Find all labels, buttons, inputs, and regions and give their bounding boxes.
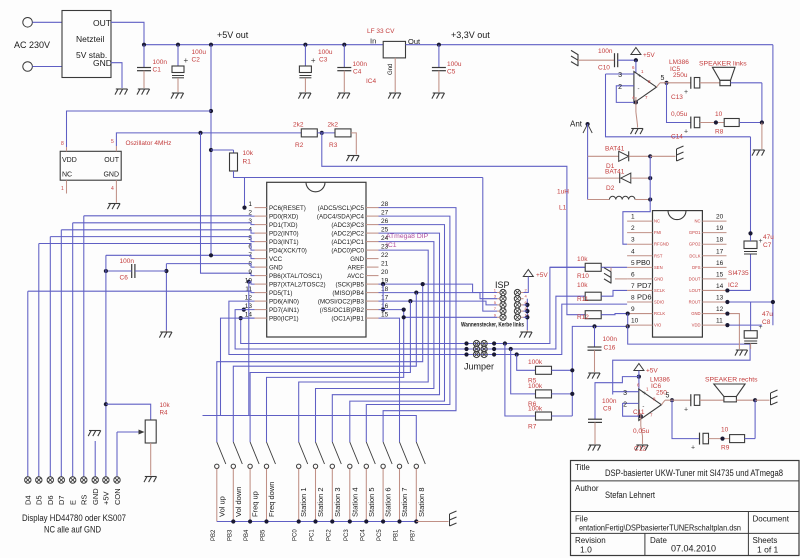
svg-text:R1: R1 xyxy=(243,159,252,166)
pin 7 SI4735 SCLK xyxy=(627,289,652,291)
wire C9 to supply xyxy=(595,377,639,420)
wire Freq up to common xyxy=(249,469,251,522)
wire pin15 PB1 to Station 7 xyxy=(379,318,400,442)
wire Vol down to common xyxy=(232,469,234,522)
svg-text:GND: GND xyxy=(350,256,364,263)
pin 13 ATmega8 PD7(AIN1) xyxy=(255,309,267,311)
svg-text:8: 8 xyxy=(631,295,635,302)
pin 4 oscillator GND lead xyxy=(115,180,117,203)
svg-text:21: 21 xyxy=(381,261,389,268)
power +5V symbol IC6 xyxy=(634,364,644,371)
diode D1 BAT41 xyxy=(588,155,619,157)
wire pin17 riser to Freq up xyxy=(250,301,410,442)
pin 3 SI4735 RFGND xyxy=(627,243,652,245)
node R6 common xyxy=(570,392,574,396)
svg-text:100u: 100u xyxy=(447,61,462,68)
pin 11 ATmega8 PD5(T1) xyxy=(255,292,267,294)
pin 12 SI4735 GND xyxy=(702,313,726,315)
svg-text:PD7(AIN1): PD7(AIN1) xyxy=(269,307,299,314)
svg-text:C10: C10 xyxy=(598,65,610,72)
svg-text:C16: C16 xyxy=(604,345,616,352)
svg-text:100n: 100n xyxy=(598,48,613,55)
svg-text:Wannenstecker, Kerbe links: Wannenstecker, Kerbe links xyxy=(461,322,524,329)
svg-text:RFGND: RFGND xyxy=(654,242,669,247)
svg-text:RCLK: RCLK xyxy=(654,311,665,316)
svg-text:3: 3 xyxy=(618,72,622,79)
connector ISP pin pair row 5 xyxy=(500,314,506,320)
pin 8 oscillator VDD lead xyxy=(66,147,68,151)
wire IC6 pin2 feedback xyxy=(623,403,641,416)
wire PB7 down to station 8 line xyxy=(248,282,250,416)
svg-text:VCC: VCC xyxy=(269,256,283,263)
wire C12 to R9 xyxy=(709,438,730,440)
svg-text:entationFertig\DSPbasierterTUN: entationFertig\DSPbasierterTUNERschaltpl… xyxy=(579,523,741,533)
svg-text:PB3: PB3 xyxy=(227,529,233,541)
node jumper right taps xyxy=(492,341,496,345)
svg-text:R10: R10 xyxy=(577,273,589,280)
wire R10 to SI pin5 xyxy=(601,266,627,268)
resistor R5 100k xyxy=(536,366,552,374)
wire Freq down to common xyxy=(266,469,268,522)
wire oscillator OUT to clock net xyxy=(116,133,301,146)
svg-text:C3: C3 xyxy=(319,57,328,64)
svg-text:22: 22 xyxy=(381,252,389,259)
capacitor C2 100u electrolytic xyxy=(177,45,179,66)
svg-text:PD2(INT0): PD2(INT0) xyxy=(269,231,299,238)
svg-text:100u: 100u xyxy=(318,49,333,56)
wire Station 7 to common xyxy=(399,469,401,522)
svg-text:(ADC3)PC3: (ADC3)PC3 xyxy=(331,222,364,229)
svg-text:PC2: PC2 xyxy=(326,529,332,541)
node pin19 xyxy=(381,282,385,286)
svg-text:NC alle auf GND: NC alle auf GND xyxy=(44,525,101,535)
wire Station 2 to common xyxy=(315,469,317,522)
node Vol up riser tap xyxy=(421,282,425,286)
svg-text:OUT: OUT xyxy=(104,157,120,164)
wire riser to Freq down xyxy=(267,310,404,442)
capacitor C14 0,05u xyxy=(690,117,692,129)
connector ISP pin pair row 4 xyxy=(500,308,506,314)
svg-text:GND: GND xyxy=(93,58,112,68)
capacitor C10 100n xyxy=(578,59,615,61)
svg-text:9: 9 xyxy=(248,269,252,276)
svg-text:19: 19 xyxy=(716,225,724,232)
svg-text:R11: R11 xyxy=(577,296,589,303)
svg-text:+: + xyxy=(691,445,695,452)
svg-text:PB7(XTAL2/TOSC2): PB7(XTAL2/TOSC2) xyxy=(269,282,326,289)
node pin13 xyxy=(725,300,729,304)
svg-text:(MISO)PB4: (MISO)PB4 xyxy=(332,290,364,297)
svg-text:C4: C4 xyxy=(353,69,362,76)
svg-text:PC5: PC5 xyxy=(377,529,383,541)
svg-text:OUT: OUT xyxy=(93,18,111,28)
svg-text:47u: 47u xyxy=(763,234,774,241)
potentiometer R4 10k xyxy=(145,420,156,443)
power supply block Netzteil 5V stab. xyxy=(62,11,111,78)
svg-text:PB5: PB5 xyxy=(261,529,267,541)
switch Station 7 xyxy=(400,442,409,464)
node pin4 ground xyxy=(634,100,638,104)
pin 5 ATmega8 PD3(INT1) xyxy=(255,241,267,243)
svg-text:PD6: PD6 xyxy=(637,293,652,302)
power +5V symbol at ISP xyxy=(523,270,533,277)
wire PB3 pin17 MOSI to ISP xyxy=(379,301,498,305)
svg-text:25: 25 xyxy=(381,227,389,234)
svg-text:D5: D5 xyxy=(35,495,44,505)
svg-text:(OC1A)PB1: (OC1A)PB1 xyxy=(331,316,364,323)
wire +5V rail xyxy=(144,44,383,46)
wire speaker links return xyxy=(731,82,762,84)
svg-text:23: 23 xyxy=(381,244,389,251)
pin 18 SI4735 GPO2 xyxy=(702,243,726,245)
svg-text:DOUT: DOUT xyxy=(689,276,701,281)
wire divider tap to SI4735 xyxy=(322,133,585,315)
svg-text:+: + xyxy=(184,56,189,65)
svg-text:AC 230V: AC 230V xyxy=(14,40,50,50)
resistor R3 2k2 xyxy=(335,129,351,137)
speaker links xyxy=(720,80,731,85)
svg-text:GPO1: GPO1 xyxy=(689,230,701,235)
svg-text:1: 1 xyxy=(631,214,635,221)
pin 2 ATmega8 PD0(RXD) xyxy=(255,215,267,217)
connector terminal CON xyxy=(114,477,120,483)
wire ROUT pin13 to 3.3V net xyxy=(727,301,773,303)
wire +5V into IC6 pin6 xyxy=(638,371,640,377)
svg-text:2k2: 2k2 xyxy=(328,122,339,129)
wire antenna node vertical xyxy=(649,156,651,199)
svg-text:10k: 10k xyxy=(243,150,254,157)
svg-text:C9: C9 xyxy=(603,406,612,413)
svg-text:(ADC5/SCL)PC5: (ADC5/SCL)PC5 xyxy=(318,205,365,212)
wire R8 to return xyxy=(739,122,762,124)
svg-text:PC3: PC3 xyxy=(344,529,350,541)
svg-text:100k: 100k xyxy=(528,359,543,366)
node C7 top xyxy=(748,231,752,235)
svg-text:(ADC0)PC0: (ADC0)PC0 xyxy=(331,248,364,255)
svg-text:NC: NC xyxy=(62,172,72,179)
wire station 8 long line xyxy=(203,416,417,443)
svg-text:(/SS/OC1B)PB2: (/SS/OC1B)PB2 xyxy=(320,307,365,314)
wire R1 to RESET node xyxy=(234,171,483,178)
svg-text:Station 6: Station 6 xyxy=(384,487,393,517)
svg-text:Vol down: Vol down xyxy=(234,487,243,517)
svg-text:GND: GND xyxy=(103,172,119,179)
svg-text:GND: GND xyxy=(91,488,100,505)
svg-text:16: 16 xyxy=(716,260,724,267)
svg-text:10k: 10k xyxy=(577,282,588,289)
capacitor C7 47u xyxy=(750,255,752,291)
wire clock to ATmega XTAL1 pin9 xyxy=(201,133,255,276)
node pin17 xyxy=(408,299,412,303)
wire R5 feed xyxy=(517,355,536,371)
power +5V symbol IC5 xyxy=(631,48,641,55)
node D1 right xyxy=(648,154,652,158)
svg-text:27: 27 xyxy=(381,210,389,217)
svg-text:+3,3V out: +3,3V out xyxy=(451,30,490,40)
node R8/return xyxy=(760,120,764,124)
node antenna xyxy=(586,122,590,126)
wire +5V into IC5 pin6 xyxy=(635,60,637,73)
wire PB4 pin18 MISO to ISP xyxy=(379,293,498,299)
svg-text:R3: R3 xyxy=(329,142,338,149)
svg-text:7: 7 xyxy=(631,283,635,290)
svg-text:RST: RST xyxy=(654,253,663,258)
switch Vol down xyxy=(233,442,242,464)
node ISP right taps xyxy=(525,303,529,307)
svg-text:AREF: AREF xyxy=(347,265,364,272)
pin 20 SI4735 NC xyxy=(702,220,726,222)
svg-text:(MOSI/OC2)PB3: (MOSI/OC2)PB3 xyxy=(318,299,365,306)
wire GND pin8 to ground net xyxy=(166,264,254,268)
node pin13/3.3V xyxy=(771,300,775,304)
wire VIO down and right xyxy=(613,326,750,394)
ground for C6/GND net xyxy=(165,331,167,332)
wire display E column xyxy=(72,223,74,477)
wire AC2 to Netzteil xyxy=(32,66,62,68)
svg-text:6: 6 xyxy=(248,244,252,251)
inductor L1 1uH xyxy=(588,199,610,201)
wire RESET to ISP xyxy=(483,178,497,312)
pin 3 ATmega8 PD1(TXD) xyxy=(255,224,267,226)
svg-text:PB2: PB2 xyxy=(211,529,217,541)
svg-text:18: 18 xyxy=(381,286,389,293)
svg-text:1.0: 1.0 xyxy=(580,545,592,555)
node +5V to R4 branch xyxy=(104,402,108,406)
svg-text:+5V: +5V xyxy=(102,491,111,505)
wire LOUT pin14 to C7 xyxy=(727,289,751,291)
svg-text:SEN: SEN xyxy=(654,265,663,270)
wire PC3 pin26 to Station 4 xyxy=(350,225,445,442)
pin 27 ATmega8 (ADC4/SDA)PC4 xyxy=(366,215,379,217)
node pulldown taps xyxy=(503,341,507,345)
connector terminal D7 xyxy=(58,477,64,483)
op-amp IC5 LM386 triangle xyxy=(634,72,657,103)
wire D1 node to earth xyxy=(650,155,675,157)
wire PD6 pin12 loop to SI SDIO xyxy=(229,301,627,354)
wire Station 6 to common xyxy=(382,469,384,522)
wire PC4 pin27 to Station 5 xyxy=(366,216,450,442)
svg-text:In: In xyxy=(370,37,376,46)
wire pin19 to pin16 tie xyxy=(382,284,384,310)
wire R9 to return xyxy=(745,438,756,440)
svg-text:47u: 47u xyxy=(762,311,773,318)
svg-text:+: + xyxy=(638,74,642,80)
connector terminal D4 xyxy=(25,477,31,483)
svg-text:100n: 100n xyxy=(602,398,617,405)
svg-text:IC2: IC2 xyxy=(728,282,739,289)
wire display D4 column xyxy=(27,291,29,477)
svg-text:R2: R2 xyxy=(295,142,304,149)
wire display D5 column xyxy=(38,244,40,477)
svg-text:3: 3 xyxy=(623,390,627,397)
svg-text:SPEAKER links: SPEAKER links xyxy=(699,61,747,68)
svg-text:GPO2: GPO2 xyxy=(689,242,701,247)
ground for C16 xyxy=(588,372,600,374)
wire speaker rechts return xyxy=(736,399,755,401)
switch Vol up xyxy=(217,442,226,464)
node R2/R3 divider xyxy=(320,131,324,135)
ground for ISP xyxy=(526,330,528,332)
wire GND net down through C6 xyxy=(165,264,167,331)
wire pin4 to ground xyxy=(635,97,637,112)
wire VCC pin7 to +5V xyxy=(106,255,255,258)
resistor R9 10 xyxy=(730,435,745,443)
connector terminal +5V xyxy=(103,477,109,483)
wire +5V to R4 top xyxy=(106,404,151,420)
capacitor C13 250u xyxy=(690,77,692,89)
wire pin3 input xyxy=(606,73,634,75)
svg-text:R12: R12 xyxy=(577,314,589,321)
wire IC6 pin3 input xyxy=(613,391,639,393)
svg-text:PD7: PD7 xyxy=(637,281,652,290)
svg-text:+: + xyxy=(684,407,688,414)
svg-text:NC: NC xyxy=(694,219,700,224)
svg-text:R8: R8 xyxy=(715,129,724,136)
pin 4 SI4735 RST xyxy=(627,255,652,257)
pin 16 ATmega8 (/SS/OC1B)PB2 xyxy=(366,309,379,311)
wire R3 to ground xyxy=(351,133,356,155)
wire R4 bottom to ground xyxy=(150,443,152,476)
wire antenna to SI4735 FMI xyxy=(623,200,650,245)
pin 13 SI4735 ROUT xyxy=(702,301,726,303)
wire pullup vertical to VIO xyxy=(572,326,627,416)
svg-text:1: 1 xyxy=(248,201,252,208)
switch Freq up xyxy=(250,442,259,464)
wire Netzteil OUT to +5V rail xyxy=(111,22,144,44)
svg-text:PD5(T1): PD5(T1) xyxy=(269,290,292,297)
svg-text:Title: Title xyxy=(575,463,590,472)
svg-text:GND: GND xyxy=(654,276,663,281)
svg-text:12: 12 xyxy=(716,306,724,313)
svg-text:100n: 100n xyxy=(353,61,368,68)
pin 6 SI4735 GND xyxy=(627,278,652,280)
connector terminal E xyxy=(70,477,76,483)
svg-text:2: 2 xyxy=(631,225,635,232)
ground for IC5 xyxy=(631,128,643,130)
pin 10 ATmega8 PB7(XTAL2/TOSC2) xyxy=(255,283,267,285)
node C6 left on +5V column xyxy=(104,269,108,273)
svg-text:+5V out: +5V out xyxy=(217,30,249,40)
oscillator 4MHz block xyxy=(60,151,121,180)
wire return down to R8 node xyxy=(761,83,763,123)
resistor R7 100k xyxy=(536,412,552,420)
svg-text:15: 15 xyxy=(716,271,724,278)
connector jumper row 2 xyxy=(473,346,479,352)
wire C8 to ground xyxy=(750,343,752,349)
svg-text:PB0(ICP1): PB0(ICP1) xyxy=(269,316,299,323)
wire PB2 pin16 stub xyxy=(379,309,404,311)
pin 15 SI4735 DOUT xyxy=(702,278,726,280)
wire common bus to earth xyxy=(416,521,448,523)
wire PB7 pin10 left xyxy=(249,282,255,284)
svg-text:SI4735: SI4735 xyxy=(728,270,749,277)
wire Station 4 to common xyxy=(349,469,351,522)
wire Station 5 to common xyxy=(365,469,367,522)
node SI pin9 xyxy=(626,311,630,315)
node LOUT xyxy=(725,288,729,292)
ground for C2 xyxy=(172,92,184,94)
svg-text:(ADC1)PC1: (ADC1)PC1 xyxy=(331,239,364,246)
resistor R1 10k xyxy=(233,150,235,153)
wire Netzteil GND down xyxy=(111,63,122,88)
svg-text:+5V: +5V xyxy=(536,272,548,279)
pin 8 SI4735 SDIO xyxy=(627,301,652,303)
svg-text:PB1: PB1 xyxy=(394,529,400,541)
node +5V main vertical xyxy=(209,43,213,47)
svg-text:PB0: PB0 xyxy=(636,258,650,267)
pin 28 ATmega8 (ADC5/SCL)PC5 xyxy=(366,207,379,209)
resistor R11 10k xyxy=(585,292,601,300)
wire Station 3 to common xyxy=(331,469,333,522)
pin 22 ATmega8 GND xyxy=(366,258,379,260)
svg-text:07.04.2010: 07.04.2010 xyxy=(671,544,716,554)
node IC6 pin4 xyxy=(639,414,643,418)
wire pin9 node down to VIO line xyxy=(627,314,629,327)
svg-text:C2: C2 xyxy=(192,57,201,64)
ground for IC6 xyxy=(636,444,648,446)
node VCC/+5V xyxy=(209,253,213,257)
svg-text:10: 10 xyxy=(631,318,639,325)
node PB7 pin10 branch xyxy=(247,280,251,284)
pin 4 ATmega8 PD2(INT0) xyxy=(255,232,267,234)
ground for C4 xyxy=(338,92,350,94)
svg-text:PD1(TXD): PD1(TXD) xyxy=(269,222,298,229)
wire PC2 pin25 to Station 3 xyxy=(332,233,439,442)
svg-text:20: 20 xyxy=(381,269,389,276)
svg-text:4: 4 xyxy=(111,186,114,192)
svg-text:+: + xyxy=(684,129,688,136)
svg-text:0,05u: 0,05u xyxy=(633,428,650,435)
speaker rechts xyxy=(724,397,737,402)
node C3 xyxy=(303,43,307,47)
switch Station 8 xyxy=(416,442,425,464)
svg-text:13: 13 xyxy=(716,295,724,302)
svg-text:D7: D7 xyxy=(57,495,66,505)
wire +3.3V rail xyxy=(406,44,773,46)
svg-text:+5V: +5V xyxy=(643,52,655,59)
svg-text:Freq down: Freq down xyxy=(267,482,276,517)
svg-text:VIO: VIO xyxy=(654,323,662,328)
node pin14 branch xyxy=(239,316,243,320)
capacitor C5 100u xyxy=(438,45,440,68)
switch Station 1 xyxy=(299,442,308,464)
node +5V/C1 xyxy=(142,43,146,47)
svg-text:Station 5: Station 5 xyxy=(367,487,376,517)
wire Station 1 to common xyxy=(298,469,300,522)
svg-text:3: 3 xyxy=(248,218,252,225)
wire CON to R4 wiper xyxy=(117,431,139,433)
wire +3.3V down right side xyxy=(772,45,774,326)
ground for oscillator xyxy=(108,203,120,205)
svg-text:10: 10 xyxy=(715,111,723,118)
node C14/R8 xyxy=(714,120,718,124)
diode D2 BAT41 reversed xyxy=(588,177,620,179)
wire +5V vertical to VCC xyxy=(210,45,212,257)
pin 20 ATmega8 AVCC xyxy=(366,275,379,277)
node IC6 supply xyxy=(637,375,641,379)
wire zobel tap xyxy=(667,83,691,123)
wire pin14 branch down to long line xyxy=(221,318,255,415)
capacitor C3 100u electrolytic xyxy=(304,45,306,66)
svg-text:2: 2 xyxy=(623,402,627,409)
svg-text:E: E xyxy=(69,500,78,505)
node D2 right xyxy=(648,176,652,180)
svg-text:6: 6 xyxy=(631,271,635,278)
pin 21 ATmega8 AREF xyxy=(366,266,379,268)
wire C11 to speaker rechts xyxy=(700,399,724,401)
pin 23 ATmega8 (ADC0)PC0 xyxy=(366,249,379,251)
svg-text:PC6(RESET): PC6(RESET) xyxy=(269,205,306,212)
